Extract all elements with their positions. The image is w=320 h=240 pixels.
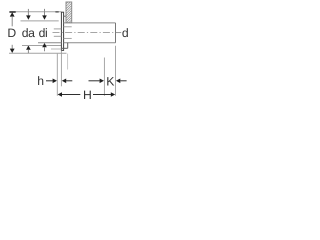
collar right face	[67, 43, 69, 49]
socket inner line top	[54, 28, 62, 30]
dimension arrow D top	[10, 12, 15, 16]
collar bottom edge	[61, 47, 67, 49]
extension line vertical x104	[103, 58, 105, 96]
svg-text:H: H	[83, 88, 91, 102]
collar top connector	[64, 15, 67, 17]
leader to label d	[116, 32, 121, 34]
dimension arrow D bottom	[11, 45, 13, 49]
svg-text:di: di	[39, 26, 48, 40]
extension line collar bottom left	[51, 48, 61, 50]
flange plate (loose flange, side view)	[61, 12, 63, 50]
extension line vertical x57	[56, 54, 58, 96]
pipe top outline	[64, 22, 116, 24]
pipe end face	[115, 23, 117, 43]
svg-text:d: d	[122, 26, 128, 40]
socket inner line bottom	[54, 35, 62, 37]
dimension arrow da top	[26, 15, 31, 19]
extension line vertical x115	[115, 46, 117, 96]
dimension arrow di top	[42, 15, 47, 19]
dimension arrow di bottom	[42, 43, 47, 47]
dimension arrow da bottom	[26, 45, 31, 49]
extension line D top dark segment right	[55, 11, 58, 13]
dimension h right arrow and tail	[62, 79, 66, 84]
leader di top	[44, 9, 46, 16]
svg-text:D: D	[7, 26, 16, 40]
dimension K right arrow and tail	[116, 79, 120, 84]
svg-text:da: da	[22, 26, 35, 40]
svg-text:K: K	[106, 75, 114, 89]
bore line bottom	[64, 37, 72, 39]
centerline	[53, 32, 115, 34]
extension line vertical x61	[60, 51, 62, 87]
extension line vertical x67 faint	[67, 54, 69, 70]
bore line top	[64, 26, 72, 28]
svg-text:h: h	[37, 74, 43, 88]
extension line D bottom	[9, 52, 67, 54]
dimension K left tail and arrow	[89, 80, 100, 82]
extension line D top dark segment left	[9, 11, 15, 13]
collar cross-section (hatched)	[66, 0, 72, 28]
dimension h left tail and arrow	[46, 80, 53, 82]
dimension H right tail and arrow	[93, 94, 111, 96]
extension line D top	[10, 11, 62, 13]
dimension H left arrow and tail	[58, 92, 62, 97]
extension line da/di top	[21, 20, 59, 22]
extension line da bottom	[22, 45, 61, 47]
leader da top	[27, 9, 29, 16]
pipe bottom outline / di extension	[38, 42, 61, 44]
collar cross-section outline	[66, 2, 72, 23]
